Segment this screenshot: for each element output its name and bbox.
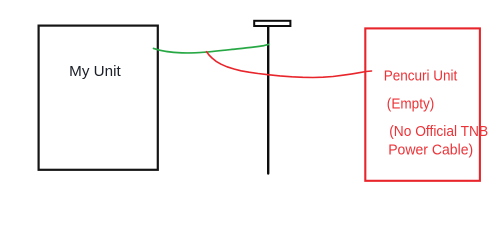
svg-text:Power Cable): Power Cable) [388,142,473,158]
red tap wire [207,52,372,78]
box Pencuri Unit [365,28,480,180]
green wire [154,44,269,53]
box My Unit [39,26,158,170]
pole crossbar [254,21,290,26]
svg-text:Pencuri Unit: Pencuri Unit [384,69,458,85]
svg-text:My Unit: My Unit [69,64,121,80]
svg-text:(Empty): (Empty) [387,97,435,113]
pole [267,26,269,173]
svg-text:(No Official TNB: (No Official TNB [389,124,488,140]
